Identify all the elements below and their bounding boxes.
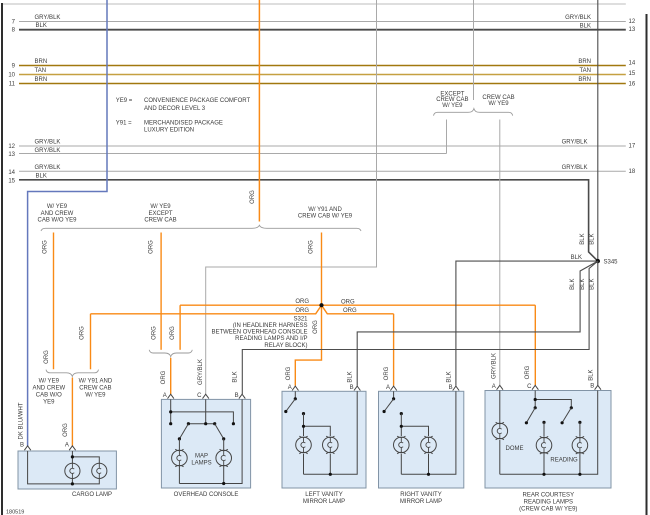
svg-text:15: 15 bbox=[8, 178, 15, 184]
map lamp 2 leads bbox=[223, 439, 225, 484]
svg-text:BLK: BLK bbox=[571, 255, 582, 261]
svg-text:CONVENIENCE PACKAGE COMFORT: CONVENIENCE PACKAGE COMFORT bbox=[144, 98, 250, 104]
connector box RIGHT VANITY MIRROR LAMP bbox=[379, 391, 464, 488]
wire ORG overhead right branch bbox=[179, 305, 181, 350]
svg-text:CREW CAB: CREW CAB bbox=[482, 95, 514, 101]
pin arrow C overhead bbox=[203, 394, 209, 398]
svg-text:ORG: ORG bbox=[44, 350, 50, 364]
svg-text:MAP: MAP bbox=[195, 454, 208, 460]
svg-text:C: C bbox=[197, 393, 202, 399]
svg-text:ORG: ORG bbox=[63, 423, 69, 437]
rear ground bus bbox=[500, 391, 598, 475]
svg-text:11: 11 bbox=[9, 82, 16, 88]
cargo internal feed bbox=[72, 451, 99, 463]
wire 10/15 TAN row D bbox=[19, 74, 626, 76]
svg-text:14: 14 bbox=[629, 61, 636, 67]
svg-text:YE9: YE9 bbox=[43, 400, 55, 406]
wire EXCEPT CREW CAB branch to row G bbox=[446, 120, 448, 154]
wire BLK S345 to right vanity pin B bbox=[456, 261, 596, 386]
node rear ground junction 1 bbox=[542, 473, 545, 476]
pin arrow B overhead bbox=[239, 394, 245, 398]
svg-text:B: B bbox=[350, 385, 354, 391]
switch overhead left bbox=[178, 422, 190, 440]
svg-text:BLK: BLK bbox=[580, 24, 591, 30]
svg-text:W/ YE9: W/ YE9 bbox=[39, 379, 60, 385]
svg-text:TAN: TAN bbox=[579, 68, 591, 74]
wire GRY/BLK feed to crew-cab brace bbox=[473, 0, 475, 100]
node left vanity ground junction bbox=[329, 473, 332, 476]
svg-text:B: B bbox=[449, 385, 453, 391]
wire 12/17 GRY/BLK row F bbox=[19, 145, 626, 147]
svg-text:BRN: BRN bbox=[578, 59, 591, 65]
svg-text:12: 12 bbox=[629, 19, 636, 25]
reading lamp 1 contact and leads bbox=[542, 421, 545, 424]
node right vanity ground junction bbox=[427, 473, 430, 476]
lamp cargo 2 bbox=[92, 463, 107, 478]
node cargo ground junction bbox=[71, 482, 74, 485]
pin arrow A cargo bbox=[69, 446, 75, 450]
svg-text:MERCHANDISED PACKAGE: MERCHANDISED PACKAGE bbox=[144, 120, 223, 126]
right vanity lamp feed bbox=[401, 414, 428, 436]
svg-text:CAB W/O: CAB W/O bbox=[36, 393, 62, 399]
overhead ground bus bbox=[179, 399, 242, 483]
svg-text:180519: 180519 bbox=[6, 510, 24, 515]
right vanity lamp bottoms bbox=[401, 454, 428, 475]
svg-text:BLK: BLK bbox=[233, 371, 239, 382]
svg-text:S321: S321 bbox=[293, 316, 308, 322]
connector box LEFT VANITY MIRROR LAMP bbox=[282, 391, 366, 488]
svg-text:GRY/BLK: GRY/BLK bbox=[562, 140, 588, 146]
brace cargo merge bbox=[46, 370, 99, 377]
pin arrow A right vanity bbox=[390, 386, 396, 390]
lamp right vanity 1 bbox=[394, 436, 410, 454]
rear dome feed bbox=[499, 391, 501, 424]
wire BLK S345 to left vanity pin B bbox=[357, 261, 598, 386]
wire 13 GRY/BLK row G joins EXCEPT branch bbox=[19, 153, 447, 155]
svg-text:W/ YE9: W/ YE9 bbox=[85, 393, 106, 399]
svg-text:BLK: BLK bbox=[580, 279, 586, 290]
svg-text:16: 16 bbox=[629, 81, 636, 87]
svg-text:DOME: DOME bbox=[506, 446, 524, 452]
svg-text:ORG: ORG bbox=[161, 370, 167, 384]
node overhead A contact right bbox=[232, 422, 235, 425]
wire GRY/BLK feed to overhead console pin C bbox=[206, 0, 377, 394]
svg-text:ORG: ORG bbox=[170, 326, 176, 340]
switch rear right bbox=[561, 406, 573, 424]
lamp reading 1 bbox=[536, 436, 552, 454]
svg-text:GRY/BLK: GRY/BLK bbox=[565, 15, 591, 21]
svg-text:ORG: ORG bbox=[43, 240, 49, 254]
pin arrow B cargo bbox=[24, 446, 30, 450]
node rear ground junction 2 bbox=[578, 473, 581, 476]
svg-text:RIGHT VANITY: RIGHT VANITY bbox=[400, 492, 441, 498]
svg-text:CREW CAB: CREW CAB bbox=[79, 386, 111, 392]
S321 lower distribution wire left bbox=[91, 305, 322, 314]
wire 15 BLK row I to S345 bbox=[19, 180, 598, 261]
svg-text:BLK: BLK bbox=[348, 371, 354, 382]
svg-text:OVERHEAD CONSOLE: OVERHEAD CONSOLE bbox=[174, 492, 239, 498]
svg-text:AND CREW: AND CREW bbox=[41, 211, 74, 217]
svg-text:MIRROR LAMP: MIRROR LAMP bbox=[400, 499, 442, 505]
reading lamp 2 contact and leads bbox=[578, 421, 581, 424]
svg-text:CAB W/O YE9: CAB W/O YE9 bbox=[38, 218, 78, 224]
pin arrow B rear bbox=[595, 385, 601, 389]
svg-text:ORG: ORG bbox=[313, 320, 319, 334]
svg-text:GRY/BLK: GRY/BLK bbox=[35, 140, 61, 146]
node left vanity feed junction bbox=[302, 425, 305, 428]
svg-text:W/ Y91 AND: W/ Y91 AND bbox=[79, 379, 113, 385]
pin arrow A rear bbox=[497, 385, 503, 389]
svg-text:GRY/BLK: GRY/BLK bbox=[198, 359, 204, 385]
brace crew cab options bbox=[434, 109, 513, 116]
rear pin C feed bbox=[535, 391, 571, 408]
svg-text:YE9 =: YE9 = bbox=[116, 98, 133, 104]
svg-text:B: B bbox=[235, 393, 239, 399]
left vanity lamp feed bbox=[304, 414, 331, 436]
svg-text:A: A bbox=[65, 443, 69, 449]
svg-text:ORG: ORG bbox=[286, 366, 292, 380]
cargo internal ground loop bbox=[28, 451, 100, 484]
svg-text:(CREW CAB W/ YE9): (CREW CAB W/ YE9) bbox=[519, 507, 577, 513]
svg-text:ORG: ORG bbox=[384, 366, 390, 380]
svg-text:GRY/BLK: GRY/BLK bbox=[35, 165, 61, 171]
wire ORG overhead pin A bbox=[170, 358, 172, 394]
svg-text:AND DECOR LEVEL 3: AND DECOR LEVEL 3 bbox=[144, 106, 206, 112]
right page border bbox=[646, 14, 648, 515]
svg-text:BLK: BLK bbox=[570, 279, 576, 290]
svg-text:MIRROR LAMP: MIRROR LAMP bbox=[303, 499, 345, 505]
svg-text:18: 18 bbox=[629, 169, 636, 175]
pin arrow B left vanity bbox=[354, 386, 360, 390]
wire ORG main feed bbox=[258, 0, 260, 222]
node cargo feed junction bbox=[71, 455, 74, 458]
left page border bbox=[1, 3, 3, 515]
wire ORG option drop 2 (overhead left) bbox=[160, 233, 162, 350]
right vanity pin A drop bbox=[393, 391, 395, 399]
node overhead A contact left bbox=[169, 422, 172, 425]
svg-text:C: C bbox=[527, 384, 532, 390]
svg-text:13: 13 bbox=[629, 27, 636, 33]
lamp map 2 bbox=[216, 449, 232, 467]
svg-text:DK BLU/WHT: DK BLU/WHT bbox=[18, 402, 24, 439]
svg-text:W/ YE9: W/ YE9 bbox=[150, 204, 171, 210]
wire 11/16 BRN row E bbox=[19, 83, 626, 85]
wire DK BLU/WHT feed to cargo lamp bbox=[28, 0, 107, 446]
switch right vanity bbox=[383, 397, 403, 415]
svg-text:ORG: ORG bbox=[525, 365, 531, 379]
wire ORG rear courtesy pin C branch bbox=[534, 305, 536, 385]
svg-text:CREW CAB: CREW CAB bbox=[144, 218, 176, 224]
node rear pin C junction bbox=[534, 398, 537, 401]
svg-text:BRN: BRN bbox=[35, 77, 48, 83]
svg-text:EXCEPT: EXCEPT bbox=[148, 211, 172, 217]
svg-text:REAR COURTESY: REAR COURTESY bbox=[523, 493, 575, 499]
svg-text:W/ YE9: W/ YE9 bbox=[47, 204, 68, 210]
svg-text:ORG: ORG bbox=[250, 190, 256, 204]
svg-text:GRY/BLK: GRY/BLK bbox=[35, 148, 61, 154]
svg-text:A: A bbox=[288, 385, 292, 391]
overhead pin A feed paths bbox=[171, 399, 234, 423]
left vanity pin A drop bbox=[294, 391, 296, 399]
overhead pin C drop bbox=[188, 399, 214, 423]
svg-text:BRN: BRN bbox=[35, 59, 48, 65]
node overhead C junction bbox=[204, 422, 207, 425]
map lamp 1 leads bbox=[178, 439, 180, 484]
svg-text:READING LAMPS: READING LAMPS bbox=[524, 500, 573, 506]
connector box REAR COURTESY READING LAMPS bbox=[485, 391, 611, 489]
wire ORG right vanity pin A branch bbox=[393, 314, 395, 386]
pin arrow A left vanity bbox=[292, 386, 298, 390]
right vanity ground bus bbox=[401, 391, 456, 474]
svg-text:READING: READING bbox=[550, 457, 578, 463]
pin arrow C rear bbox=[532, 385, 538, 389]
svg-text:17: 17 bbox=[629, 144, 636, 150]
svg-text:10: 10 bbox=[8, 73, 15, 79]
lamp right vanity 2 bbox=[421, 436, 437, 454]
svg-text:BLK: BLK bbox=[589, 369, 595, 380]
svg-text:W/ YE9: W/ YE9 bbox=[442, 103, 463, 109]
svg-text:ORG: ORG bbox=[343, 308, 357, 314]
switch overhead right bbox=[213, 422, 225, 440]
node right vanity feed junction bbox=[400, 425, 403, 428]
svg-text:B: B bbox=[590, 384, 594, 390]
wire 7/12 GRY/BLK row A bbox=[19, 21, 626, 23]
svg-text:ORG: ORG bbox=[80, 326, 86, 340]
svg-text:BETWEEN OVERHEAD CONSOLE: BETWEEN OVERHEAD CONSOLE bbox=[211, 330, 307, 336]
S321 lower distribution wire right bbox=[322, 305, 394, 314]
node overhead A junction bbox=[169, 410, 172, 413]
svg-text:BLK: BLK bbox=[36, 174, 47, 180]
svg-text:LUXURY EDITION: LUXURY EDITION bbox=[144, 128, 194, 134]
wire ORG cargo pin A bbox=[71, 378, 73, 446]
lamp map 1 bbox=[172, 449, 188, 467]
svg-text:RELAY BLOCK): RELAY BLOCK) bbox=[264, 343, 307, 349]
svg-text:READING LAMPS AND I/P: READING LAMPS AND I/P bbox=[235, 336, 307, 342]
wire ORG option drop 3 (to S321) bbox=[321, 233, 323, 306]
svg-text:AND CREW: AND CREW bbox=[32, 386, 65, 392]
pin arrow A overhead bbox=[168, 394, 174, 398]
wire cargo lamp1 bottom bbox=[71, 479, 73, 484]
svg-text:(IN HEADLINER HARNESS: (IN HEADLINER HARNESS bbox=[233, 323, 308, 329]
wire ORG option drop 1 (cargo left) bbox=[53, 233, 55, 370]
S321 upper distribution wire bbox=[180, 304, 535, 306]
svg-text:CARGO LAMP: CARGO LAMP bbox=[72, 492, 112, 498]
lamp left vanity 1 bbox=[296, 436, 312, 454]
svg-text:14: 14 bbox=[8, 170, 15, 176]
svg-text:ORG: ORG bbox=[149, 240, 155, 254]
switch left vanity bbox=[284, 397, 305, 415]
left vanity ground bus bbox=[304, 391, 358, 474]
pin arrow B right vanity bbox=[453, 386, 459, 390]
svg-text:BLK: BLK bbox=[590, 233, 596, 244]
wire ORG cargo right branch bbox=[90, 314, 92, 370]
svg-text:TAN: TAN bbox=[35, 68, 47, 74]
big option brace bbox=[41, 225, 361, 231]
wire BLK S345 to overhead pin B bbox=[242, 261, 598, 394]
svg-text:12: 12 bbox=[8, 144, 15, 150]
wire 14/18 GRY/BLK row H bbox=[19, 170, 626, 172]
svg-text:Y91 =: Y91 = bbox=[116, 120, 132, 126]
lamp left vanity 2 bbox=[323, 436, 339, 454]
svg-text:A: A bbox=[386, 385, 390, 391]
lamp cargo 1 bbox=[65, 463, 80, 478]
connector box CARGO LAMP bbox=[18, 451, 116, 489]
wire ORG left vanity pin A branch bbox=[295, 305, 321, 386]
svg-text:15: 15 bbox=[629, 71, 636, 77]
left vanity lamp bottoms bbox=[304, 454, 331, 475]
connector box OVERHEAD CONSOLE bbox=[161, 399, 250, 488]
splice S321 bbox=[319, 303, 323, 307]
wire 9/14 BRN row C bbox=[19, 65, 626, 67]
lamp reading 2 bbox=[572, 436, 588, 454]
svg-text:GRY/BLK: GRY/BLK bbox=[491, 353, 497, 379]
svg-text:W/ YE9: W/ YE9 bbox=[488, 101, 509, 107]
svg-text:B: B bbox=[20, 443, 24, 449]
svg-text:BLK: BLK bbox=[447, 371, 453, 382]
svg-text:ORG: ORG bbox=[151, 326, 157, 340]
svg-text:S345: S345 bbox=[604, 259, 619, 265]
rear dome bottom lead bbox=[499, 440, 501, 474]
svg-text:BLK: BLK bbox=[36, 23, 47, 29]
svg-text:ORG: ORG bbox=[341, 299, 355, 305]
svg-text:CREW CAB W/ YE9: CREW CAB W/ YE9 bbox=[298, 214, 353, 220]
svg-text:LAMPS: LAMPS bbox=[191, 461, 211, 467]
svg-text:BLK: BLK bbox=[590, 279, 596, 290]
svg-text:BRN: BRN bbox=[578, 77, 591, 83]
svg-text:GRY/BLK: GRY/BLK bbox=[562, 165, 588, 171]
svg-text:ORG: ORG bbox=[295, 308, 309, 314]
switch rear left bbox=[525, 406, 537, 424]
svg-text:LEFT VANITY: LEFT VANITY bbox=[305, 492, 342, 498]
top faint wire bbox=[3, 3, 626, 5]
wire CREW CAB branch to rear courtesy pin A bbox=[499, 120, 501, 386]
svg-text:A: A bbox=[163, 393, 167, 399]
wire 8/13 BLK row B bbox=[19, 29, 626, 31]
svg-text:BLK: BLK bbox=[580, 233, 586, 244]
wire BLK vertical to S345 bbox=[597, 0, 599, 261]
svg-text:13: 13 bbox=[8, 152, 15, 158]
svg-text:A: A bbox=[492, 384, 496, 390]
node overhead ground junction bbox=[222, 482, 225, 485]
svg-text:ORG: ORG bbox=[309, 240, 315, 254]
wire BLK S345 to rear courtesy pin B bbox=[597, 261, 599, 385]
svg-text:ORG: ORG bbox=[295, 299, 309, 305]
svg-text:GRY/BLK: GRY/BLK bbox=[35, 15, 61, 21]
splice S345 bbox=[596, 259, 600, 263]
lamp dome bbox=[492, 422, 508, 440]
svg-text:W/ Y91 AND: W/ Y91 AND bbox=[308, 207, 342, 213]
brace overhead merge bbox=[149, 350, 192, 357]
